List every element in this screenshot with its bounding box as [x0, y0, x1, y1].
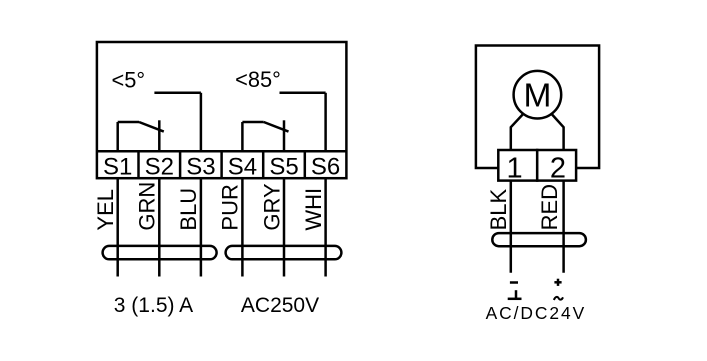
svg-text:S5: S5 — [269, 153, 298, 180]
svg-text:S1: S1 — [103, 153, 132, 180]
svg-text:S3: S3 — [186, 153, 215, 180]
svg-text:AC/DC24V: AC/DC24V — [486, 303, 587, 323]
svg-text:S4: S4 — [228, 153, 257, 180]
svg-text:<85°: <85° — [235, 67, 281, 92]
svg-text:S2: S2 — [145, 153, 174, 180]
svg-text:AC250V: AC250V — [241, 294, 319, 317]
svg-text:3 (1.5) A: 3 (1.5) A — [114, 294, 193, 317]
svg-text:WHI: WHI — [301, 188, 326, 231]
svg-text:M: M — [523, 77, 551, 114]
svg-text:PUR: PUR — [218, 184, 243, 230]
svg-text:S6: S6 — [311, 153, 340, 180]
svg-text:BLK: BLK — [486, 188, 511, 230]
svg-text:<5°: <5° — [112, 68, 146, 93]
svg-text:2: 2 — [550, 152, 566, 184]
svg-text:1: 1 — [507, 152, 523, 184]
svg-text:RED: RED — [537, 184, 562, 230]
svg-text:GRY: GRY — [259, 183, 284, 231]
svg-text:GRN: GRN — [135, 182, 160, 231]
svg-text:YEL: YEL — [93, 189, 118, 231]
svg-text:BLU: BLU — [176, 188, 201, 231]
